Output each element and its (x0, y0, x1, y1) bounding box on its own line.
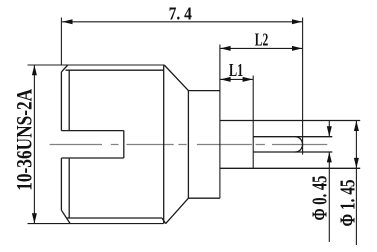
svg-text:Φ 0. 45: Φ 0. 45 (308, 176, 332, 221)
svg-text:10-36UNS-2A: 10-36UNS-2A (12, 89, 37, 191)
svg-text:7. 4: 7. 4 (169, 4, 192, 24)
svg-text:L1: L1 (229, 60, 243, 80)
svg-text:Φ 1. 45: Φ 1. 45 (335, 180, 359, 227)
svg-text:L2: L2 (255, 30, 269, 50)
